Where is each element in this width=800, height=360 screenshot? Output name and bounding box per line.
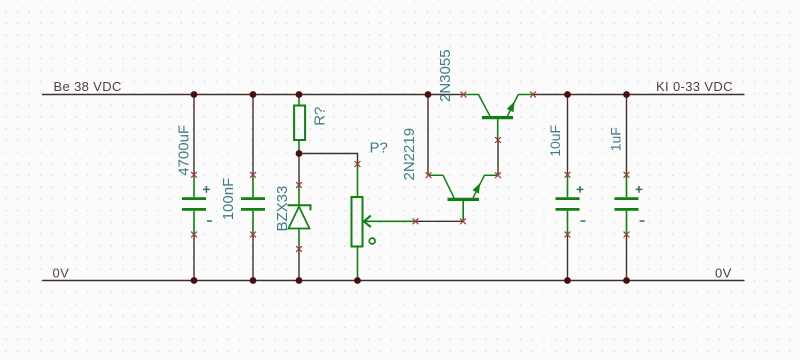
junction bottom rail at C1 bbox=[191, 277, 198, 284]
svg-text:KI 0-33 VDC: KI 0-33 VDC bbox=[656, 79, 733, 94]
wire Q2 base to Q1 emitter bbox=[497, 140, 499, 175]
svg-text:0V: 0V bbox=[715, 265, 732, 280]
pin mark Q2 collector bbox=[461, 92, 467, 98]
pin mark pot top bbox=[355, 161, 361, 167]
pin mark C1 bottom bbox=[191, 232, 197, 238]
svg-text:P?: P? bbox=[370, 140, 388, 157]
capacitor C2 100nF bbox=[241, 175, 265, 235]
pin mark C2 bottom bbox=[250, 232, 256, 238]
pin mark C4 bottom bbox=[624, 232, 630, 238]
capacitor C4 1uF bbox=[615, 175, 645, 235]
junction bottom rail at zener bbox=[296, 277, 303, 284]
svg-text:4700uF: 4700uF bbox=[176, 125, 193, 176]
junction top rail at C1 bbox=[191, 91, 198, 98]
potentiometer P? bbox=[352, 164, 416, 281]
svg-text:0V: 0V bbox=[53, 265, 70, 280]
wire top rail KI 0-33 VDC segment bbox=[533, 94, 745, 96]
zener diode BZX33 bbox=[288, 185, 311, 249]
svg-text:BZX33: BZX33 bbox=[274, 186, 291, 232]
wire C3 bottom bbox=[567, 235, 569, 281]
junction bottom rail at C3 bbox=[564, 277, 571, 284]
wire C4 top bbox=[626, 95, 628, 175]
junction top rail at C2 bbox=[250, 91, 257, 98]
transistor Q2 2N3055 bbox=[464, 95, 534, 141]
svg-text:100nF: 100nF bbox=[220, 178, 237, 221]
pin mark C4 top bbox=[624, 172, 630, 178]
svg-text:10uF: 10uF bbox=[547, 125, 563, 157]
resistor R? bbox=[294, 95, 305, 154]
svg-text:Be 38 VDC: Be 38 VDC bbox=[54, 79, 122, 94]
wire bottom rail 0V bbox=[42, 280, 745, 282]
pin mark zener top bbox=[296, 182, 302, 188]
svg-text:R?: R? bbox=[312, 107, 329, 126]
wire C4 bottom bbox=[626, 235, 628, 281]
wire node to pot top bbox=[299, 154, 358, 165]
junction bottom rail at pot bbox=[354, 277, 361, 284]
transistor Q1 2N2219 bbox=[429, 175, 499, 221]
wire R to zener node bbox=[298, 154, 300, 186]
pin mark C2 top bbox=[250, 172, 256, 178]
wire pot wiper to Q1 base bbox=[416, 220, 464, 222]
wire C3 top bbox=[567, 95, 569, 175]
pin mark Q1 base bbox=[460, 218, 466, 224]
wire C2 bottom bbox=[252, 235, 254, 281]
junction top rail at Q1 collector bbox=[425, 91, 432, 98]
junction R bottom node bbox=[296, 150, 303, 157]
svg-text:1uF: 1uF bbox=[608, 127, 624, 151]
wire C1 top bbox=[193, 95, 195, 175]
capacitor C1 4700uF bbox=[182, 175, 212, 235]
junction top rail at C3 bbox=[564, 91, 571, 98]
wire zener bottom bbox=[298, 249, 300, 281]
pin mark zener bottom bbox=[296, 246, 302, 252]
junction top rail at R bbox=[296, 91, 303, 98]
wire C1 bottom bbox=[193, 235, 195, 281]
wire top rail Be 38 VDC segment bbox=[42, 94, 464, 96]
junction top rail at C4 bbox=[623, 91, 630, 98]
junction bottom rail at C4 bbox=[623, 277, 630, 284]
wire C2 top bbox=[252, 95, 254, 175]
pin mark Q2 emitter bbox=[530, 92, 536, 98]
pin mark Q1 emitter bbox=[495, 172, 501, 178]
pin mark pot wiper bbox=[413, 218, 419, 224]
pin mark Q2 base bbox=[495, 137, 501, 143]
svg-text:2N3055: 2N3055 bbox=[437, 49, 454, 102]
capacitor C3 10uF bbox=[556, 175, 586, 235]
pin mark C3 bottom bbox=[565, 232, 571, 238]
svg-text:2N2219: 2N2219 bbox=[401, 128, 418, 181]
pin mark C1 top bbox=[191, 172, 197, 178]
wire rail to Q1 collector bbox=[427, 95, 429, 176]
junction bottom rail at C2 bbox=[250, 277, 257, 284]
pin mark C3 top bbox=[565, 172, 571, 178]
pin mark Q1 collector bbox=[426, 172, 432, 178]
